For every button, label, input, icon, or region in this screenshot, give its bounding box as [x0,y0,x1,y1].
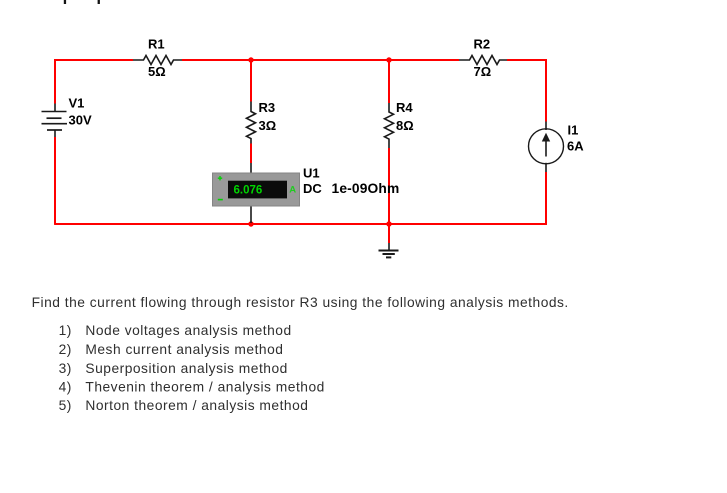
svg-text:V1: V1 [69,96,85,111]
svg-text:1e-09Ohm: 1e-09Ohm [332,181,400,196]
svg-text:8Ω: 8Ω [396,118,414,133]
resistor R3 [247,102,256,144]
wire: V1 bottom to bottom-left corner [54,137,56,225]
wire: bottom rail [55,223,546,225]
svg-text:R1: R1 [148,37,165,52]
junction: ground node on rail [386,221,391,226]
resistor R2 [459,56,507,65]
node B junction [386,57,391,62]
wire: black lead above U1 [250,163,252,173]
U1 display [228,181,287,199]
svg-text:R4: R4 [396,100,413,115]
svg-text:DC: DC [303,181,322,196]
wire: ground stub [388,224,390,243]
node A junction [248,57,253,62]
svg-text:R3: R3 [259,100,276,115]
svg-text:3): 3) [59,361,72,376]
wire: node A to node B [251,59,389,61]
svg-text:30V: 30V [69,113,92,128]
cut-off text glyph 1 (top edge) [64,0,66,4]
current source I1 [529,122,564,173]
svg-text:Norton theorem / analysis meth: Norton theorem / analysis method [85,398,308,413]
svg-text:Find the current flowing throu: Find the current flowing through resisto… [32,295,569,310]
svg-text:Mesh current analysis method: Mesh current analysis method [85,342,283,357]
wire: R1 right to node A [182,59,251,61]
wire: R4 bottom to bottom rail [388,148,390,224]
svg-text:A: A [289,184,296,195]
resistor R1 [133,56,182,65]
svg-text:3Ω: 3Ω [259,118,277,133]
svg-text:U1: U1 [303,166,320,181]
wire: top-left horizontal (V1 top corner to R1 left) [55,60,133,104]
wire: node B to R2 left [389,59,459,61]
cut-off text glyph 2 (top edge) [98,0,100,4]
junction: U1 bottom on rail [248,221,253,226]
ammeter U1 body [213,173,300,206]
arrowhead of I1 [542,133,550,142]
svg-text:Thevenin theorem / analysis me: Thevenin theorem / analysis method [85,379,324,394]
svg-text:Superposition analysis method: Superposition analysis method [85,361,287,376]
svg-text:6.076: 6.076 [234,185,263,197]
svg-text:1): 1) [59,323,72,338]
resistor R4 [385,103,394,148]
wire: I1 bottom to bottom-right corner [545,172,546,224]
ground [379,243,399,257]
svg-text:5Ω: 5Ω [148,64,166,79]
svg-text:4): 4) [59,379,72,394]
svg-text:Node voltages analysis method: Node voltages analysis method [85,323,291,338]
wire: R2 right to top-right corner and down to I1 [507,60,546,122]
svg-text:5): 5) [59,398,72,413]
wire: node B down to R4 top [388,60,390,103]
U1 minus terminal mark [218,199,223,201]
wire: node A down to R3 top [250,60,252,102]
svg-text:2): 2) [59,342,72,357]
U1 plus terminal mark [218,176,222,180]
svg-text:6A: 6A [567,139,584,154]
svg-text:R2: R2 [474,37,491,52]
voltage source V1 (battery) [42,104,68,138]
wire: black lead below U1 to rail [250,206,252,223]
svg-text:I1: I1 [568,123,579,138]
wire: R3 bottom to U1 top [250,144,252,164]
svg-text:7Ω: 7Ω [474,64,492,79]
